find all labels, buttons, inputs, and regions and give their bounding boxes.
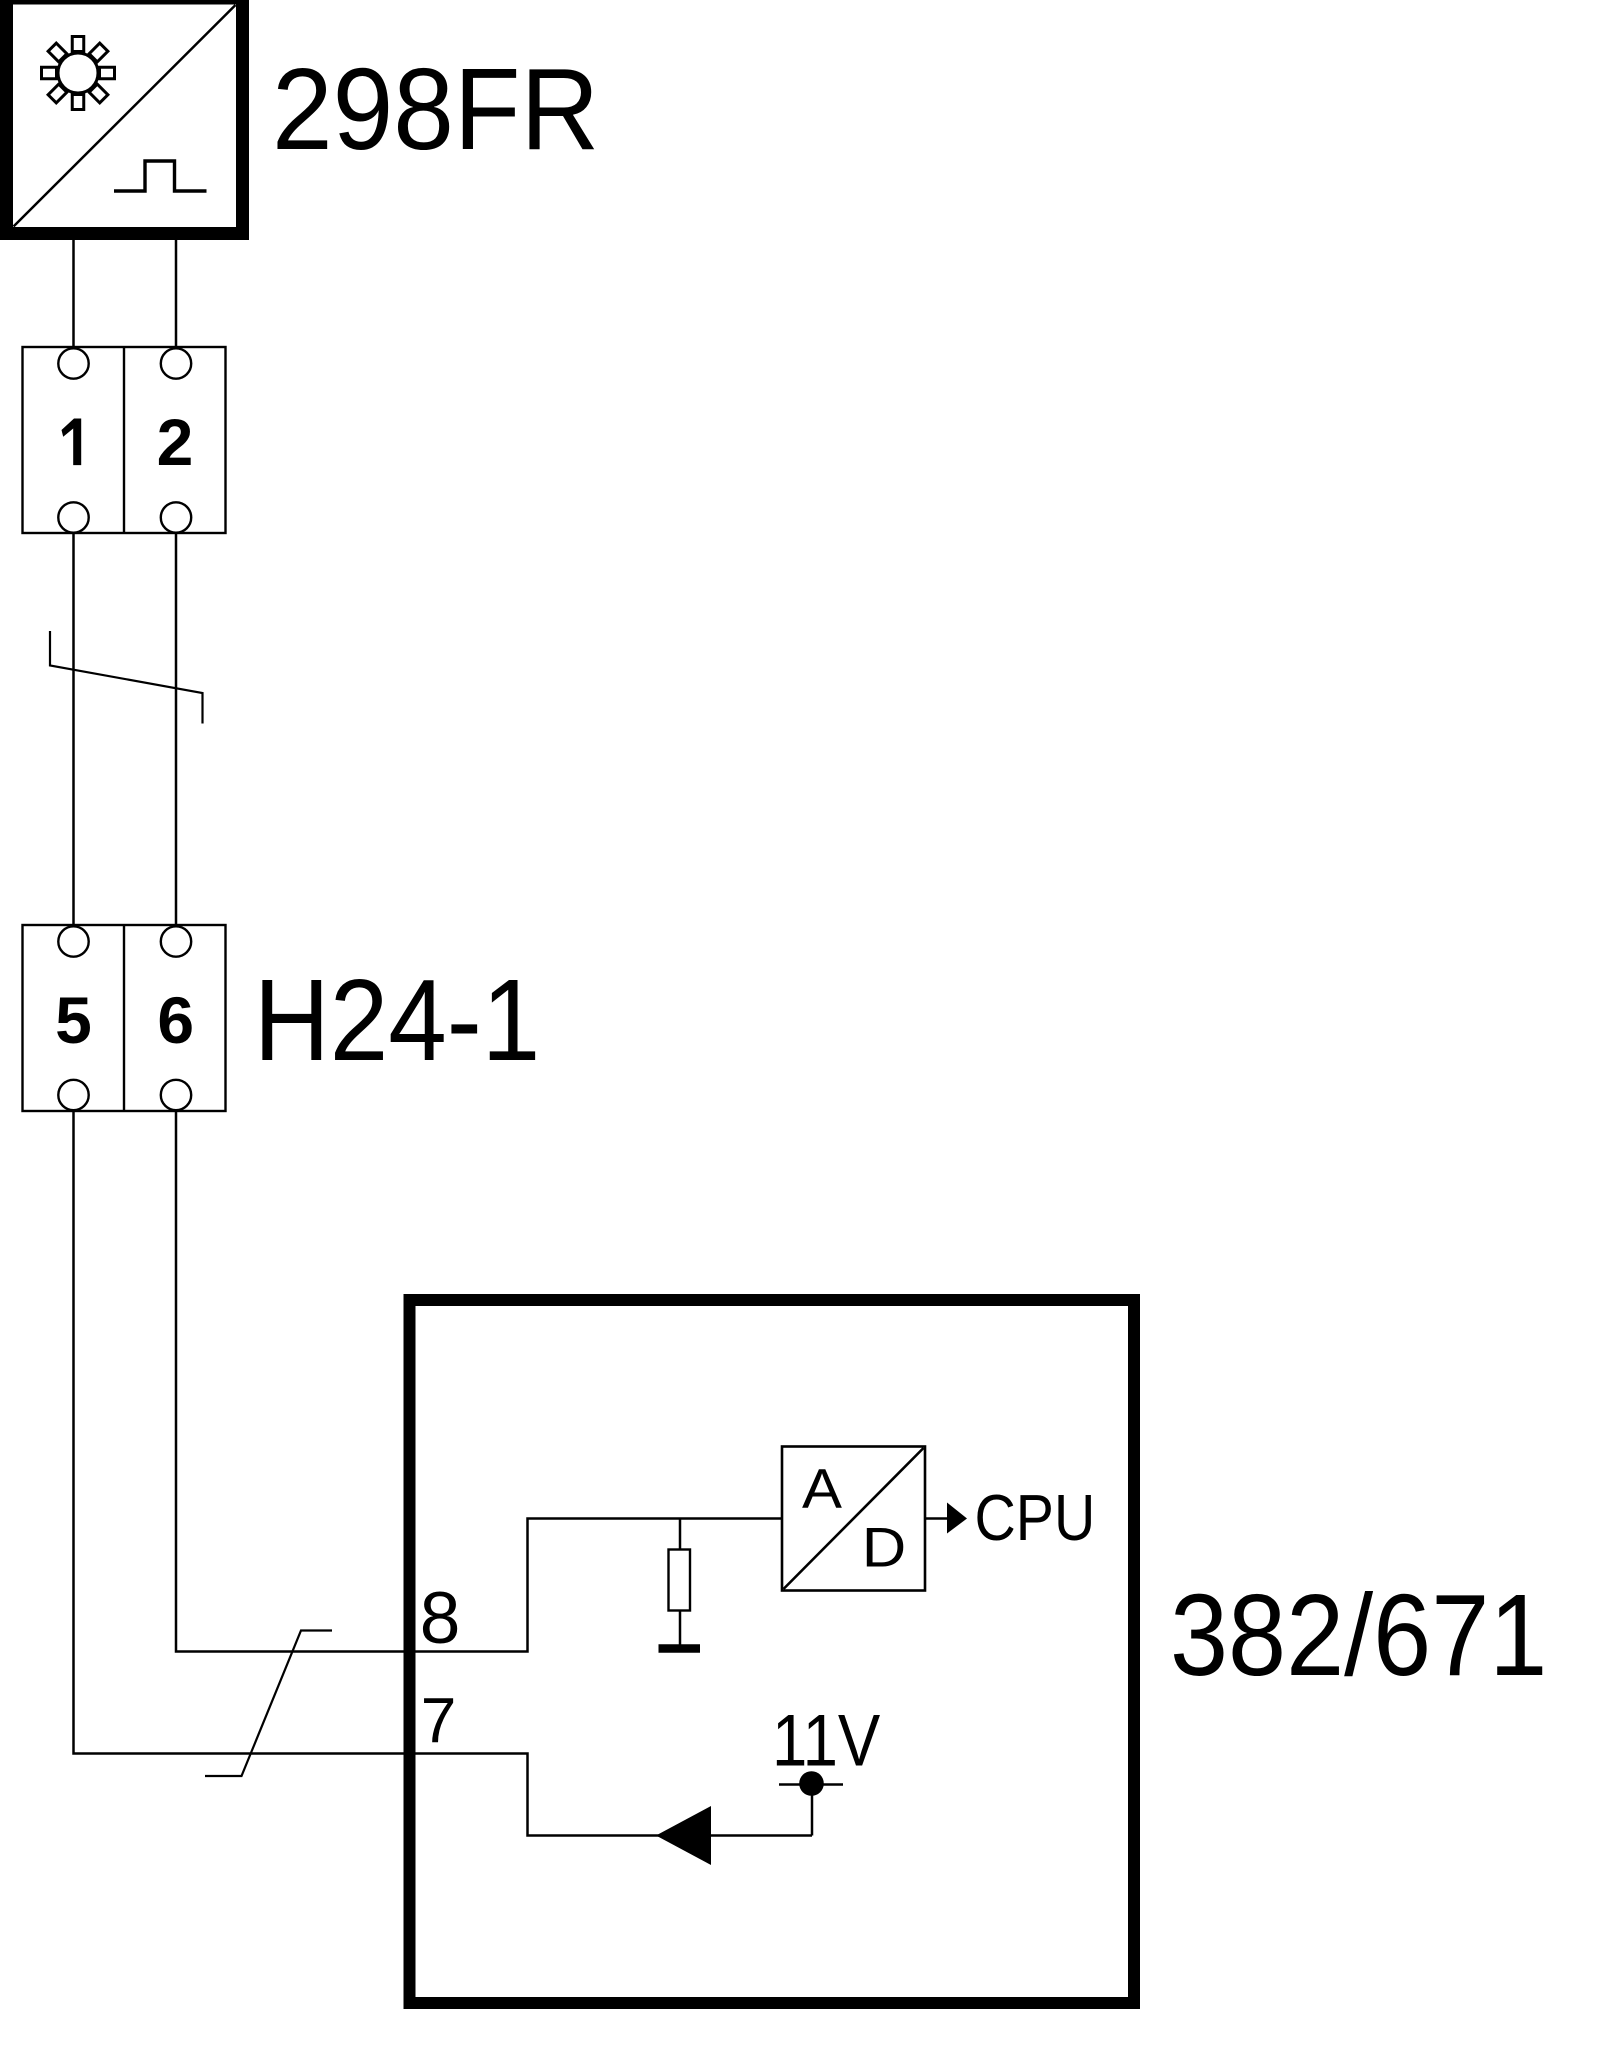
node 11V terminal line (779, 1783, 843, 1786)
pulse symbol (114, 161, 207, 191)
svg-text:H24-1: H24-1 (254, 956, 541, 1085)
svg-text:11V: 11V (772, 1700, 881, 1781)
svg-text:2: 2 (157, 405, 194, 479)
photoelectric sensor 298FR (7, 0, 243, 234)
node 11V dot (799, 1771, 824, 1796)
terminal block H24-1 terminals 5 6 (23, 925, 226, 1111)
resistor (669, 1550, 691, 1611)
wire terminal 5 to pin 7 (down, right) (74, 1106, 813, 1836)
cable marker across wires 1-2 (50, 631, 203, 724)
svg-text:A: A (802, 1458, 842, 1520)
svg-text:D: D (862, 1517, 906, 1579)
wire from sensor pin a to terminal 1 (72, 240, 75, 352)
cable marker across wires 7-8 (205, 1631, 332, 1777)
wire terminal 6 to pin 8 (down, right, up, right) (176, 1106, 781, 1652)
wire junction stub to resistor (679, 1519, 682, 1551)
svg-text:298FR: 298FR (272, 44, 599, 174)
svg-text:CPU: CPU (975, 1482, 1096, 1554)
wire 11V node down to pin 7 wire (811, 1784, 814, 1836)
svg-text:8: 8 (420, 1578, 461, 1659)
arrow to CPU (947, 1503, 967, 1534)
wire resistor to ground (679, 1611, 682, 1646)
svg-text:6: 6 (157, 983, 194, 1057)
sun symbol (light source) (42, 37, 115, 110)
ground (659, 1644, 701, 1653)
wire A/D to CPU arrow (925, 1517, 948, 1520)
wire from sensor pin b to terminal 2 (175, 240, 178, 352)
svg-text:382/671: 382/671 (1170, 1571, 1547, 1700)
svg-text:5: 5 (55, 983, 92, 1057)
wire terminal 2 to terminal 6 (175, 529, 178, 929)
control unit box 382/671 (410, 1300, 1135, 2003)
diode arrow on pin 7 wire (656, 1806, 711, 1865)
svg-text:7: 7 (421, 1685, 457, 1757)
wire terminal 1 to terminal 5 (72, 529, 75, 929)
A/D converter U1 (782, 1447, 925, 1591)
terminal 1 label (62, 419, 82, 466)
terminal block terminals 1 2 (23, 347, 226, 533)
